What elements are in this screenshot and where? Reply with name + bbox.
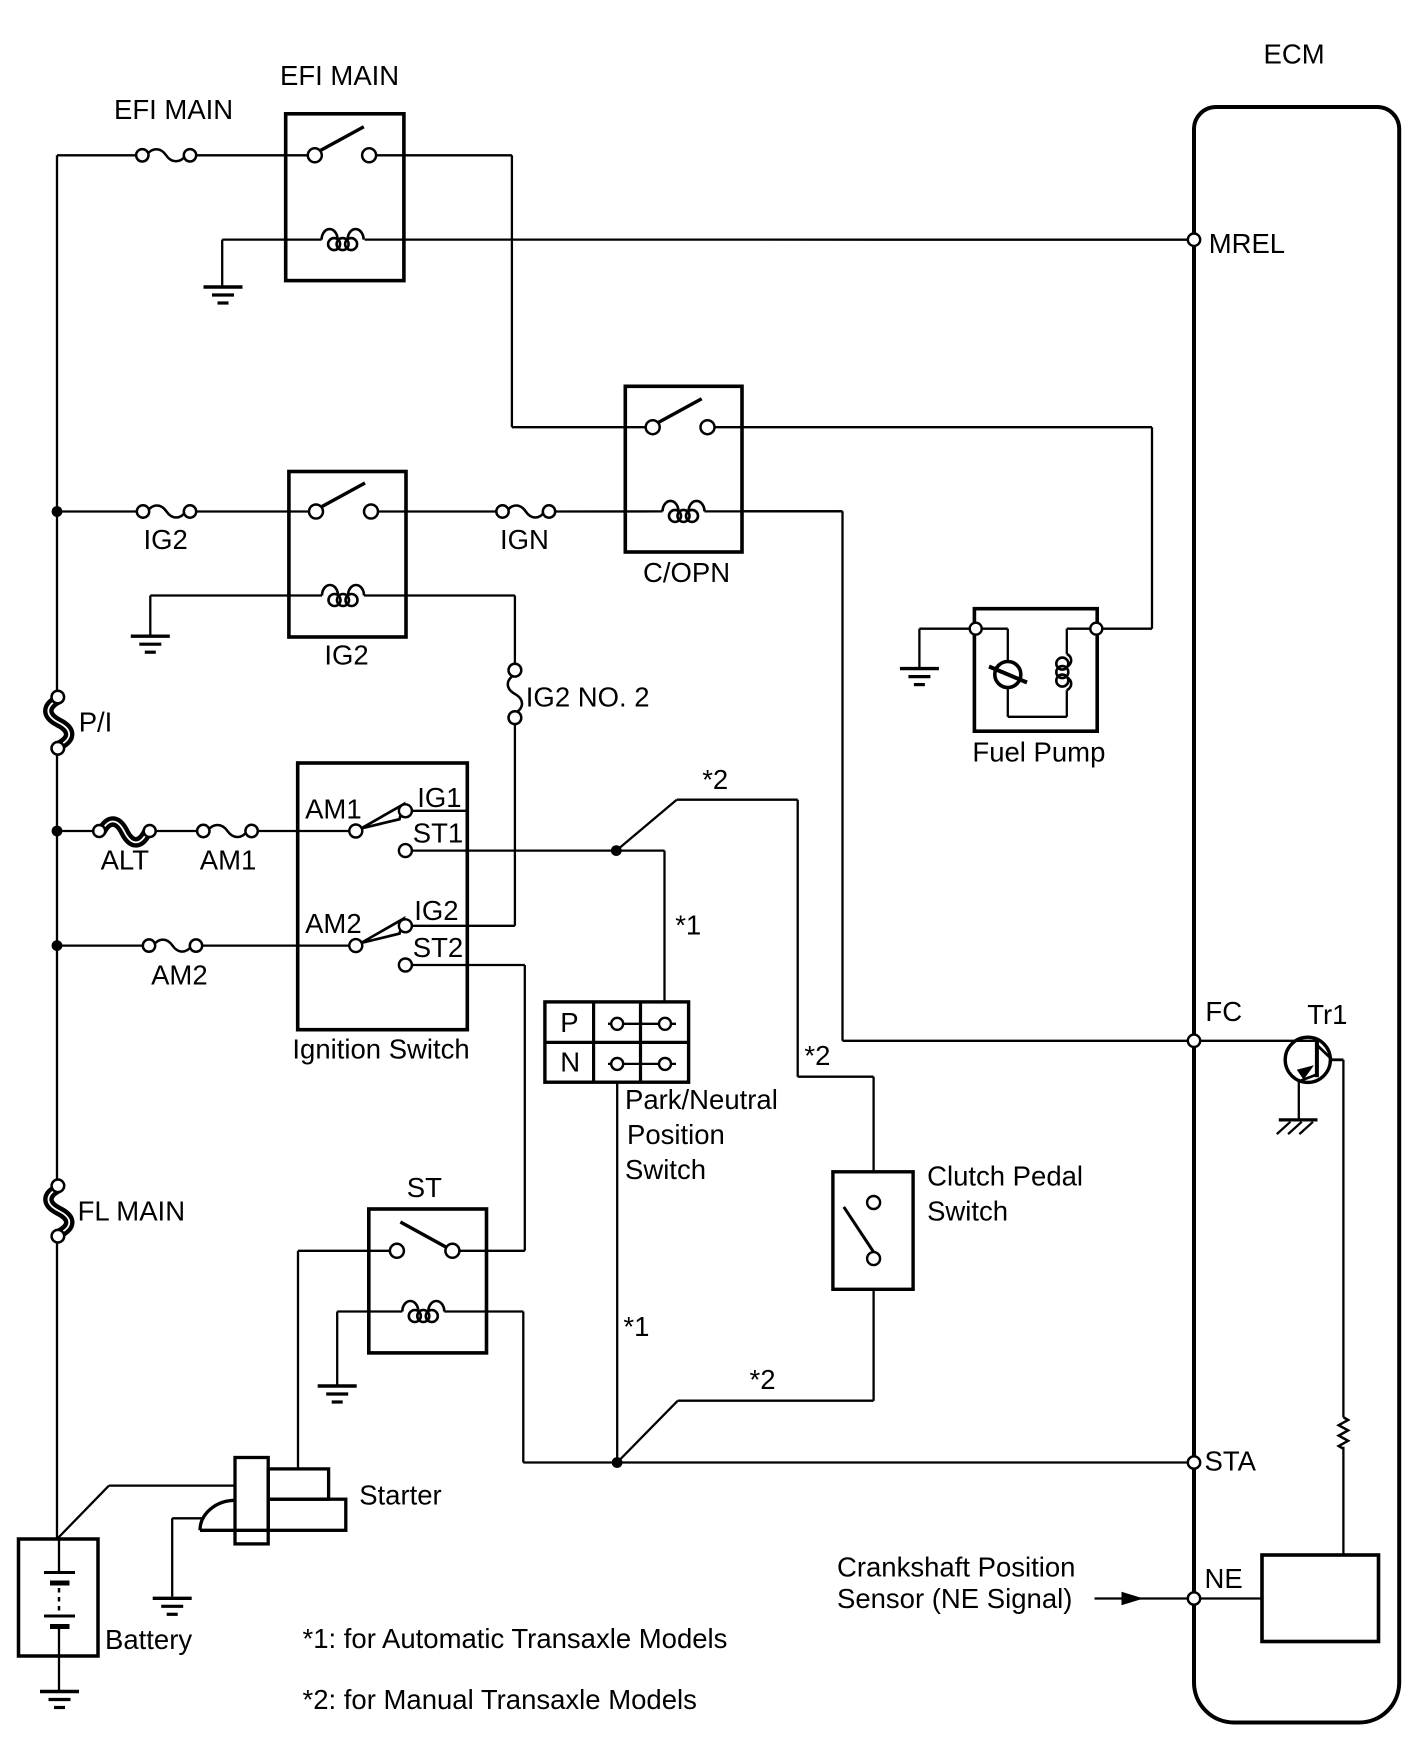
svg-text:*1: *1 [675, 910, 701, 941]
svg-text:Tr1: Tr1 [1307, 999, 1347, 1030]
svg-text:Park/Neutral: Park/Neutral [625, 1084, 778, 1115]
svg-text:*1: for Automatic Transaxle Mo: *1: for Automatic Transaxle Models [303, 1623, 728, 1654]
svg-text:IG2: IG2 [144, 524, 188, 555]
svg-text:IG2 NO. 2: IG2 NO. 2 [526, 682, 650, 713]
svg-text:Fuel Pump: Fuel Pump [972, 736, 1105, 767]
svg-text:C/OPN: C/OPN [643, 557, 730, 588]
svg-text:STA: STA [1205, 1446, 1257, 1477]
svg-text:ST2: ST2 [413, 932, 463, 963]
svg-text:EFI MAIN: EFI MAIN [114, 94, 233, 125]
svg-text:P: P [560, 1007, 578, 1038]
svg-text:Clutch Pedal: Clutch Pedal [927, 1161, 1083, 1192]
svg-text:ALT: ALT [101, 844, 150, 875]
svg-text:Switch: Switch [927, 1196, 1008, 1227]
svg-text:AM1: AM1 [200, 844, 257, 875]
svg-text:NE: NE [1205, 1563, 1243, 1594]
svg-text:Switch: Switch [625, 1154, 706, 1185]
svg-text:AM2: AM2 [305, 908, 362, 939]
svg-text:IG2: IG2 [414, 895, 458, 926]
svg-text:Crankshaft Position: Crankshaft Position [837, 1552, 1075, 1583]
svg-text:*2: for Manual Transaxle Model: *2: for Manual Transaxle Models [303, 1684, 697, 1715]
svg-text:Starter: Starter [359, 1479, 442, 1510]
svg-text:N: N [560, 1047, 580, 1078]
svg-text:ST1: ST1 [413, 818, 463, 849]
svg-text:MREL: MREL [1209, 228, 1285, 259]
svg-text:*2: *2 [702, 764, 728, 795]
svg-text:AM1: AM1 [305, 794, 362, 825]
svg-text:EFI MAIN: EFI MAIN [280, 60, 399, 91]
svg-text:P/I: P/I [79, 707, 113, 738]
svg-text:Ignition Switch: Ignition Switch [292, 1033, 469, 1064]
svg-text:Sensor (NE Signal): Sensor (NE Signal) [837, 1583, 1072, 1614]
svg-text:Battery: Battery [105, 1624, 192, 1655]
svg-text:FL MAIN: FL MAIN [78, 1196, 185, 1227]
svg-text:*2: *2 [804, 1040, 830, 1071]
svg-text:Position: Position [627, 1119, 725, 1150]
svg-text:*1: *1 [623, 1311, 649, 1342]
svg-text:ST: ST [407, 1172, 442, 1203]
svg-text:IGN: IGN [500, 524, 549, 555]
svg-text:AM2: AM2 [151, 960, 208, 991]
svg-text:IG1: IG1 [417, 782, 461, 813]
svg-text:*2: *2 [750, 1364, 776, 1395]
svg-text:FC: FC [1205, 996, 1242, 1027]
svg-text:ECM: ECM [1264, 38, 1325, 69]
svg-text:IG2: IG2 [324, 639, 368, 670]
